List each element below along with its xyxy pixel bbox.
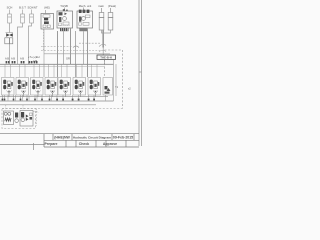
wire CYL3 down — [29, 23, 32, 64]
cylinder CYL2 — [21, 10, 25, 24]
pilot line dashed lower — [41, 50, 100, 52]
pump group dashed enclosure — [2, 109, 36, 129]
valve bank: unit stubs dashed drops — [5, 64, 97, 77]
unit B base block — [80, 28, 89, 31]
motor M2 circle — [8, 112, 11, 115]
drain arrowheads dark ticks — [2, 99, 95, 101]
motor box — [4, 111, 14, 125]
wire CYL1 down — [9, 23, 11, 33]
unit A top parts — [63, 9, 65, 11]
wire unitA down right — [70, 28, 72, 64]
wire unitB down right — [87, 28, 89, 77]
wire unitB down left — [75, 31, 77, 77]
motor M1 circle — [4, 112, 7, 115]
unit A box — [57, 11, 73, 28]
svg-text:A B: A B — [11, 57, 15, 61]
unit B wires up — [83, 8, 85, 12]
crossing bump B — [99, 44, 106, 46]
wire unitA down left — [57, 31, 59, 77]
svg-text:B.S.T: B.S.T — [19, 6, 26, 10]
unit A wire up — [64, 8, 66, 12]
valve under CYL1 — [5, 33, 13, 44]
svg-text:SCH: SCH — [7, 6, 13, 10]
unit B box — [77, 11, 93, 28]
svg-text:Prepare: Prepare — [44, 142, 57, 146]
svg-text:+T+(+)EH: +T+(+)EH — [28, 55, 40, 59]
drain drops with arrowheads — [3, 95, 106, 101]
svg-text:SCH/NT: SCH/NT — [27, 6, 37, 10]
pump P1 — [21, 112, 24, 118]
title block frame — [0, 134, 139, 147]
tank return dashed line — [2, 108, 123, 110]
cylinder CYL1 — [8, 10, 12, 24]
svg-text:09-Feb-2015: 09-Feb-2015 — [113, 136, 133, 140]
sheet right border double line — [139, 0, 142, 146]
valve unit V4 — [45, 78, 58, 97]
pump box — [20, 111, 33, 127]
cylinder CYL3 — [30, 10, 34, 24]
tank return bus 1 — [0, 96, 108, 98]
pilot return line — [44, 53, 110, 55]
wire CYL2 down — [18, 23, 23, 64]
fold mark tick — [33, 143, 35, 150]
sheet bottom border left segment — [0, 144, 44, 146]
svg-text:(Peak): (Peak) — [108, 4, 116, 8]
strainer zigzag — [5, 118, 11, 121]
HE unit wires up — [45, 10, 47, 14]
svg-text:(HHE)NW: (HHE)NW — [54, 136, 70, 140]
valve unit V2 — [16, 78, 29, 97]
svg-text:main: main — [98, 4, 104, 8]
wire unitA down mid — [63, 31, 65, 64]
valve unit V3 — [31, 78, 44, 97]
secondary bus line — [0, 66, 105, 68]
dashed option box — [105, 50, 123, 109]
label box dark — [97, 55, 116, 60]
HE unit box — [41, 14, 54, 30]
unit A base block — [60, 28, 69, 31]
svg-text:GR: GR — [66, 57, 70, 61]
option box inner verticals — [114, 60, 117, 101]
pump small parts — [30, 113, 33, 116]
svg-text:Approve: Approve — [103, 142, 117, 146]
svg-text:Mech. unit: Mech. unit — [79, 4, 92, 8]
pump circle — [21, 118, 25, 122]
check valve pair 1 — [6, 61, 38, 63]
gauge G1 — [15, 119, 19, 123]
svg-text:(HE): (HE) — [44, 6, 50, 10]
crossing bump C — [99, 50, 106, 51]
wire unitB down mid — [83, 31, 85, 64]
relief valve RV — [15, 113, 18, 118]
wire valve1 down — [9, 44, 11, 64]
tank return bus 2 — [0, 100, 114, 102]
valve unit V7 — [88, 78, 101, 97]
svg-text:Check: Check — [79, 142, 90, 146]
wire option box bottom-left vertical — [43, 64, 45, 77]
valve unit V1 — [2, 78, 15, 97]
wire pump right link — [33, 112, 38, 113]
svg-text:A B: A B — [20, 57, 24, 61]
pilot line dashed upper — [41, 46, 73, 48]
unit B internals — [79, 10, 91, 26]
wire CYL4 CYL5 merge pipe — [102, 30, 111, 55]
wire label box down — [104, 59, 106, 64]
pump triangles — [26, 115, 29, 121]
svg-text:T.HSB: T.HSB — [60, 4, 68, 8]
unit A internals — [58, 12, 70, 25]
valve unit V5 — [58, 78, 71, 97]
HE unit internals — [43, 15, 50, 28]
tank return bus 3 — [0, 104, 96, 106]
wire pump to bus — [6, 105, 37, 126]
svg-text:THE-B-H: THE-B-H — [100, 56, 112, 60]
cylinder CYL4 — [99, 8, 104, 30]
end block — [103, 78, 113, 96]
svg-text:Hydraulic Circuit Diagram: Hydraulic Circuit Diagram — [73, 136, 111, 140]
title block texts — [44, 136, 133, 147]
valve unit V6 — [73, 78, 86, 97]
main bus line P — [0, 63, 114, 65]
crossing bump A — [73, 46, 79, 48]
svg-text:A B: A B — [5, 57, 9, 61]
wire HE down dashed — [43, 29, 46, 64]
cylinder CYL5 — [108, 8, 113, 30]
port letters row — [5, 55, 70, 63]
